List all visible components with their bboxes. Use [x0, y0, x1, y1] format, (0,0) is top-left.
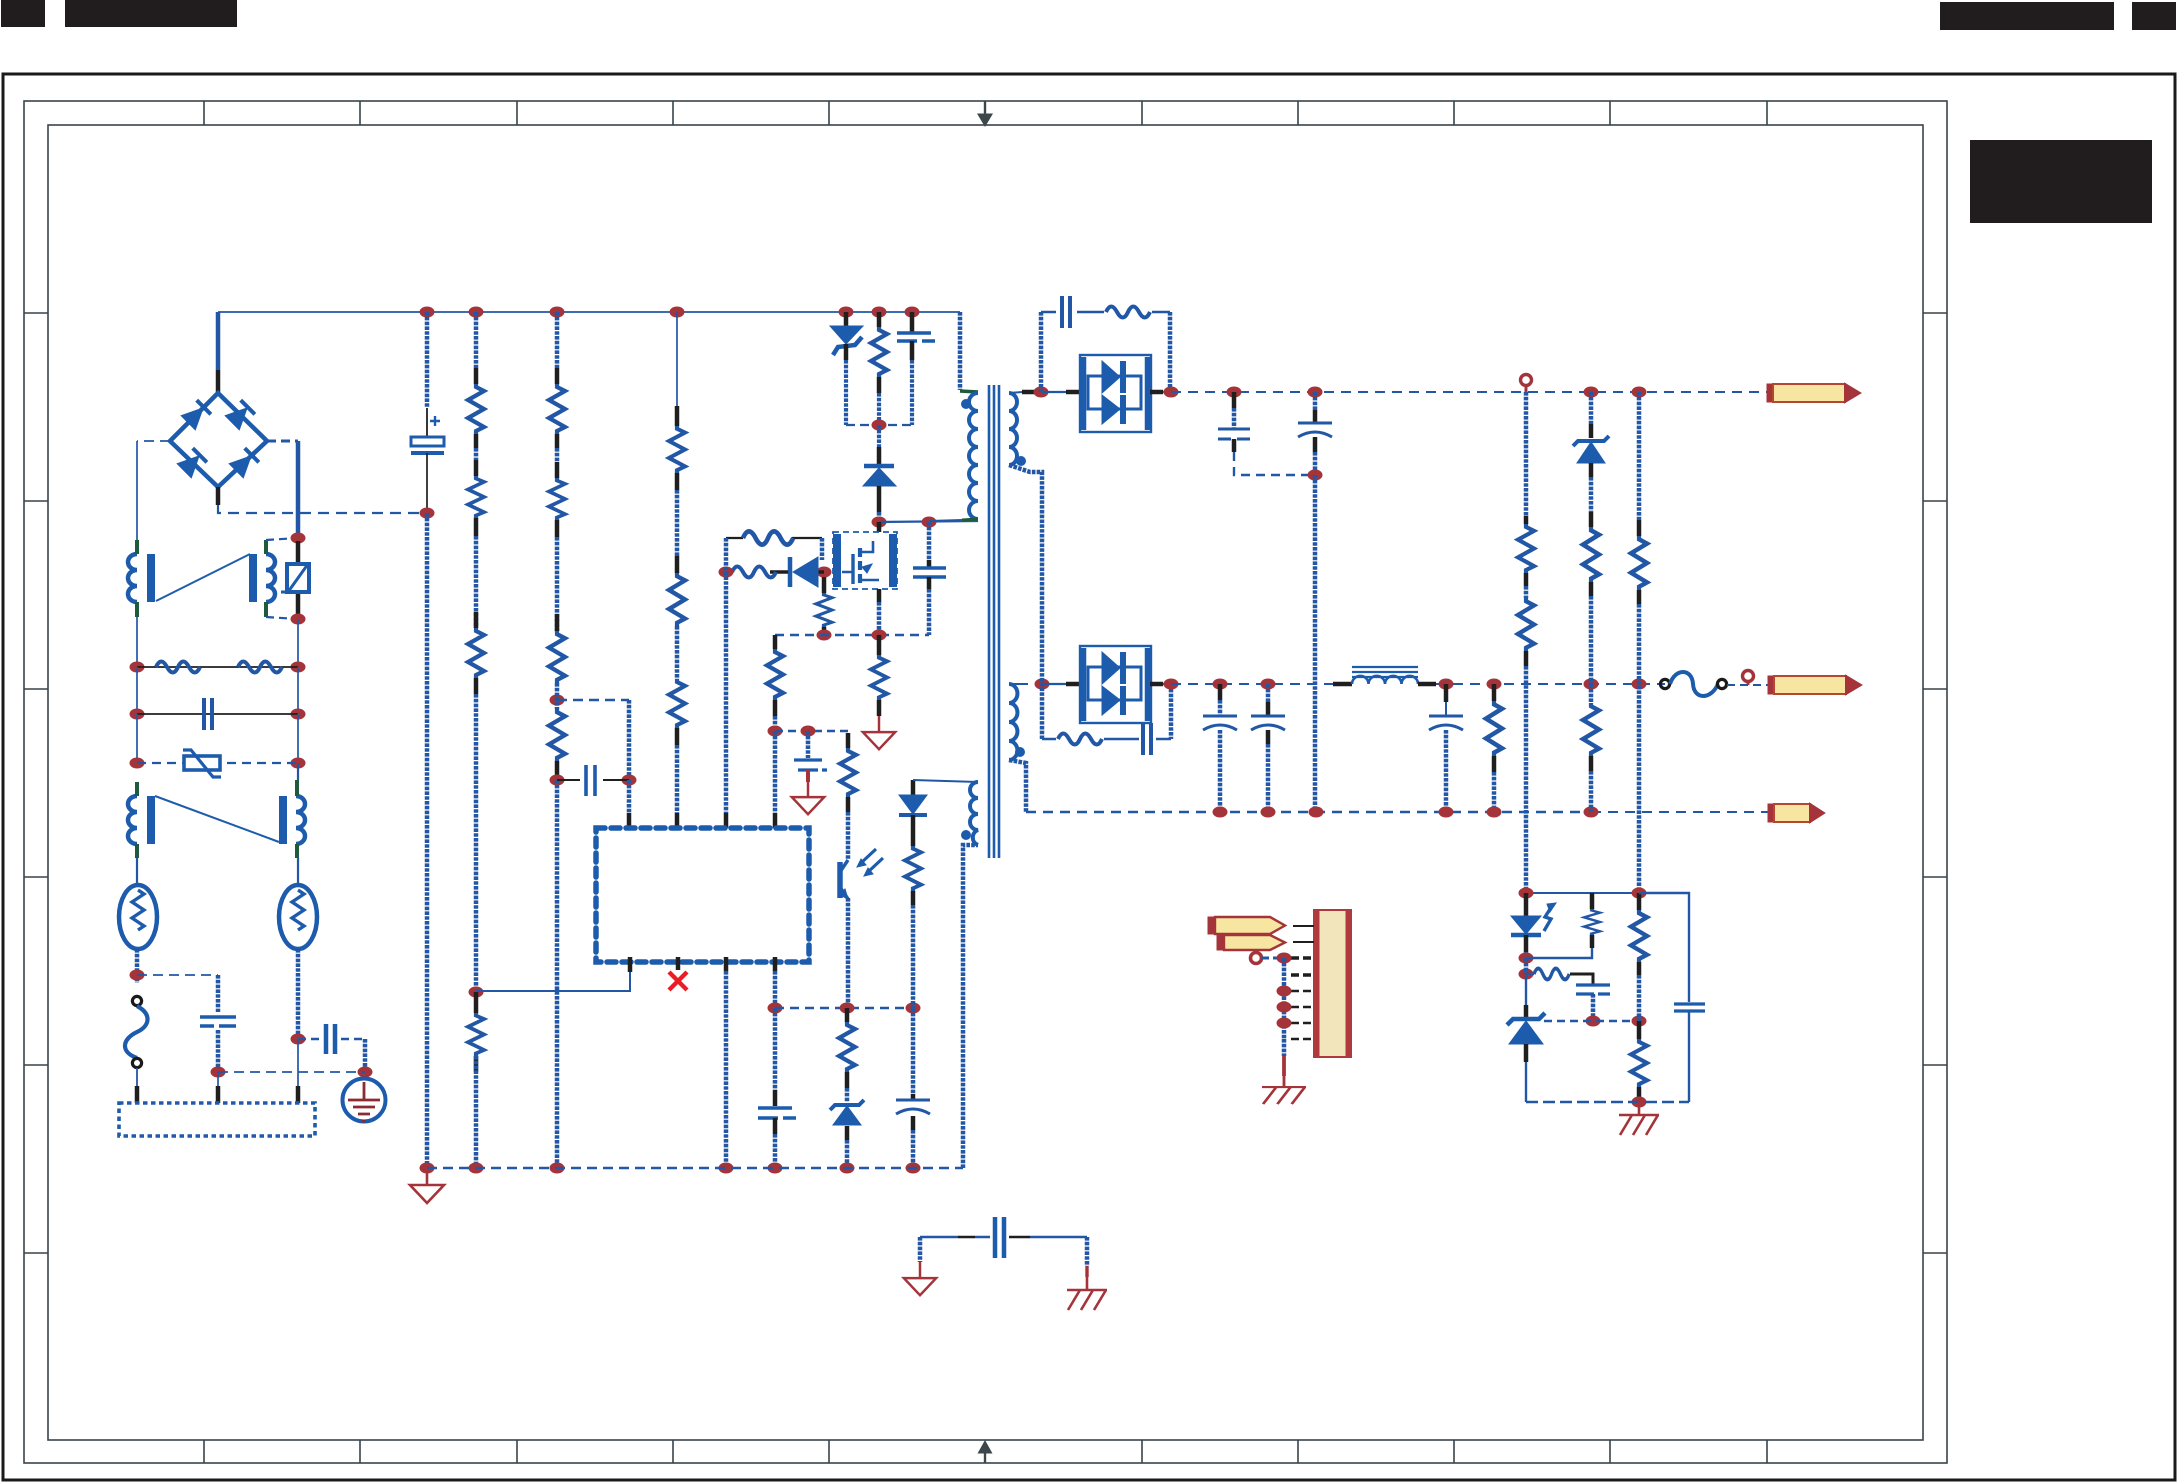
LED parallel resistor R21: [1590, 893, 1595, 909]
resistor R8: [743, 531, 793, 544]
wire: [216, 1030, 221, 1072]
arrow port +24V: [1767, 384, 1860, 402]
node: [1584, 807, 1599, 818]
wire drain row: [879, 521, 978, 522]
node: [906, 1163, 921, 1174]
node: [291, 614, 306, 625]
left border zone ticks: [24, 313, 48, 1253]
ACINPUT: [119, 312, 427, 1136]
node: [1584, 387, 1599, 398]
node: [906, 1003, 921, 1014]
wire bulk cap column: [425, 312, 430, 408]
node: [550, 695, 565, 706]
wire: [137, 667, 298, 714]
capacitor C8: [1313, 392, 1318, 410]
node: [211, 1067, 226, 1078]
fuse F2: [279, 885, 317, 949]
arrow port GND: [1768, 804, 1824, 822]
terminal circle: [132, 1058, 141, 1067]
opto resistor R12: [846, 733, 851, 748]
wire bridge bottom to bulk cap: [216, 487, 221, 505]
fuse link curve: [125, 1006, 148, 1058]
common-mode choke L2: [128, 796, 305, 844]
capacitor C-bulk polarized: [430, 416, 440, 426]
top border zone ticks: [204, 101, 1767, 125]
wire: [296, 441, 301, 538]
black label block top-right 1: [1940, 2, 2114, 30]
wire varistor row: [137, 762, 298, 764]
node: [922, 517, 937, 528]
node: [817, 630, 832, 641]
black label block right margin: [1970, 140, 2152, 223]
node: [1164, 679, 1179, 690]
zener D4: [830, 1100, 864, 1125]
node: [550, 1163, 565, 1174]
wire: [297, 763, 299, 886]
blocking diode D2: [877, 425, 881, 447]
resistor R13: [845, 1008, 850, 1022]
IC bottom pin FB: [628, 957, 633, 972]
wire aux top: [913, 780, 978, 782]
TL431 U3: [1525, 974, 1527, 1005]
node: [768, 726, 783, 737]
wire: [137, 714, 298, 763]
node: [291, 709, 306, 720]
wire secondary lower top out: [1009, 683, 1028, 685]
wire secondary top out: [1009, 392, 1022, 393]
node: [550, 775, 565, 786]
wire ref row: [1544, 1020, 1639, 1022]
node: [1632, 1016, 1647, 1027]
resistor column R5 string: [555, 312, 560, 368]
port mid rail: [1743, 671, 1754, 682]
wire primary ground rail: [427, 1167, 963, 1169]
pin: [297, 1039, 299, 1086]
capacitor CY1: [298, 1038, 365, 1041]
capacitor C11: [1266, 684, 1271, 702]
node: [130, 758, 145, 769]
SECONDARY: [904, 296, 1861, 1310]
wire gate upper branch: [726, 537, 822, 539]
capacitor C9: [1143, 723, 1151, 755]
node: [291, 662, 306, 673]
ground arrow source: [863, 716, 895, 749]
IC bottom pin VREF: [773, 957, 778, 971]
green pins choke L1: [137, 540, 266, 617]
wire row: [218, 1071, 365, 1073]
capacitor C6: [1062, 296, 1070, 328]
snubber resistor R1: [877, 312, 882, 327]
snubber capacitor C1: [910, 312, 915, 332]
pin: [136, 1068, 138, 1086]
capacitor CX1: [204, 698, 212, 730]
node: [1277, 986, 1292, 997]
node: [872, 307, 887, 318]
node: [872, 420, 887, 431]
wire: [135, 949, 140, 983]
transformer secondary winding upper: [1009, 393, 1017, 465]
opto LED block top row: [1526, 892, 1689, 894]
node: [1277, 953, 1292, 964]
resistor column R6 string: [676, 312, 678, 406]
wire cap row: [137, 713, 298, 715]
node: [420, 307, 435, 318]
wire bottom row: [1526, 1101, 1689, 1103]
node: [1632, 888, 1647, 899]
node: [1213, 807, 1228, 818]
transformer primary winding: [958, 312, 963, 390]
node: [1213, 679, 1228, 690]
chassis ground CN: [1262, 1076, 1306, 1104]
capacitor CX2: [200, 1017, 236, 1026]
resistor R17: [1492, 684, 1497, 701]
black label block top-right 2: [2132, 2, 2176, 30]
node: [1261, 679, 1276, 690]
ground arrow left: [904, 1262, 936, 1295]
wire VCC branch: [557, 699, 629, 701]
transformer aux winding: [970, 782, 978, 845]
resistor column R4 string: [474, 312, 479, 368]
CS divider resistor R11: [773, 635, 778, 649]
wire CS row: [775, 730, 848, 732]
node: [840, 1003, 855, 1014]
capacitor C10: [1218, 684, 1223, 700]
wire snubber bottom: [846, 424, 912, 426]
node: [130, 970, 145, 981]
bottom centre marker arrow: [984, 1453, 986, 1463]
wire return rail: [1026, 811, 1591, 813]
capacitor C12: [1444, 684, 1449, 702]
gate diode D3: [817, 567, 832, 578]
resistor R16: [1058, 734, 1102, 745]
wire CS to IC: [773, 731, 778, 813]
wire choke to NTC bottom: [266, 617, 298, 619]
capacitor C4: [773, 1008, 778, 1090]
node: [719, 567, 734, 578]
chassis ground right: [1067, 1277, 1107, 1310]
node: [291, 1034, 306, 1045]
node: [1487, 679, 1502, 690]
node: [469, 987, 484, 998]
ground arrow primary: [410, 1168, 444, 1203]
node: [1308, 470, 1323, 481]
capacitor C5: [911, 1008, 916, 1094]
top centre marker arrow: [984, 101, 986, 114]
resistor R15: [1106, 307, 1150, 318]
node: [291, 758, 306, 769]
chassis ground: [1619, 1102, 1659, 1135]
node: [550, 307, 565, 318]
aux diode D5: [911, 780, 916, 795]
wire: [136, 858, 138, 886]
node: [768, 1003, 783, 1014]
node: [1309, 807, 1324, 818]
MOSFET Q1: [877, 522, 882, 535]
node: [130, 662, 145, 673]
bridge rectifier BR1: [170, 393, 267, 487]
wire: [137, 617, 298, 667]
node: [905, 307, 920, 318]
terminal circle: [132, 996, 141, 1005]
wire bulk return: [425, 513, 430, 1168]
inner drawing border rect: [48, 125, 1923, 1440]
wire: [296, 949, 301, 1039]
earth ground symbol: [343, 1079, 386, 1122]
node: [622, 775, 637, 786]
connector ground bus: [1282, 958, 1287, 1039]
node: [358, 1067, 373, 1078]
varistor RV1: [184, 756, 220, 770]
IC bottom pin GND: [724, 957, 729, 971]
capacitor C13: [1576, 985, 1610, 994]
node: [1584, 679, 1599, 690]
wave link: [1670, 672, 1718, 696]
wire bridge left: [137, 440, 170, 442]
wire aux row: [775, 1007, 913, 1009]
node: [1439, 679, 1454, 690]
node: [719, 1163, 734, 1174]
node: [469, 1163, 484, 1174]
node: [1487, 807, 1502, 818]
node: [1632, 679, 1647, 690]
capacitor C3: [806, 731, 811, 758]
black label block top-left 1: [1, 0, 45, 27]
sense resistor R10: [877, 635, 882, 655]
Y-capacitor C15 bridge grounds: [920, 1236, 990, 1238]
node: [872, 630, 887, 641]
wire +rail out: [1171, 391, 1767, 393]
node: [1308, 387, 1323, 398]
wire secondary lower bottom return: [1009, 760, 1026, 812]
snubber capacitor C2: [927, 522, 932, 560]
capacitor C-vcc: [557, 779, 629, 781]
node: [420, 1163, 435, 1174]
snubber loop lower: [1042, 738, 1171, 740]
node: [1519, 969, 1534, 980]
transformer T1 core: [989, 385, 999, 858]
sense column R18 R19: [1524, 392, 1529, 516]
gate-source resistor R9: [822, 577, 827, 593]
dual diode D6: [1041, 391, 1066, 393]
capacitor C7: [1232, 392, 1237, 408]
node: [1261, 807, 1276, 818]
node: [1632, 1097, 1647, 1108]
node: [1277, 1002, 1292, 1013]
wire aux return: [963, 845, 978, 1168]
arrow port +12V: [1768, 676, 1861, 694]
wire: [363, 1039, 368, 1072]
black label block top-left 2: [65, 0, 237, 27]
wire source row: [775, 634, 929, 636]
common-mode choke L1: [128, 554, 275, 602]
resistor Ra: [156, 662, 200, 673]
PRIMARY: [218, 307, 1026, 1204]
node: [130, 709, 145, 720]
wire to X-cap: [137, 974, 218, 976]
node: [1519, 888, 1534, 899]
node: [1164, 387, 1179, 398]
transformer secondary winding lower: [1009, 684, 1017, 760]
node: [291, 533, 306, 544]
open circle pin3: [1251, 953, 1262, 964]
connector pins: [1293, 926, 1314, 942]
open circle: [1660, 679, 1669, 688]
green pins choke L2: [137, 780, 297, 858]
IC bottom pin NC with X: [676, 957, 681, 970]
port +rail: [1521, 375, 1532, 386]
ground arrow C3: [792, 781, 824, 814]
arrow into pin1: [1208, 917, 1285, 934]
node: [1586, 1016, 1601, 1027]
divider resistors R23 R24: [1637, 893, 1642, 910]
wire gate drive column: [724, 538, 729, 813]
zener column D8: [1589, 392, 1594, 424]
node: [1035, 679, 1050, 690]
right border zone ticks: [1923, 313, 1947, 1253]
pin: [296, 1086, 301, 1103]
snubber TVS branch: [844, 312, 849, 326]
resistor Rb: [238, 662, 282, 673]
node drain: [872, 517, 887, 528]
node: [840, 1163, 855, 1174]
wire discharge row: [137, 666, 298, 668]
node: [839, 307, 854, 318]
TVS diode D1: [830, 326, 863, 344]
optocoupler phototransistor U2B: [837, 862, 843, 898]
aux resistor R14: [905, 846, 921, 891]
node: [1519, 953, 1534, 964]
gate resistor R7: [732, 567, 776, 578]
snubber loop upper: [1039, 312, 1044, 392]
connector CN2: [1314, 910, 1351, 1057]
node: [1632, 387, 1647, 398]
wire bridge right: [267, 440, 298, 443]
wire top rail: [218, 311, 960, 313]
IC U1 PWM controller: [596, 828, 809, 962]
wire IC vcc pin: [627, 780, 632, 813]
opto LED U2A: [1524, 893, 1529, 916]
series resistor R22: [1526, 973, 1534, 975]
node: [420, 508, 435, 519]
node: [1277, 1018, 1292, 1029]
node: [469, 307, 484, 318]
node: [768, 1163, 783, 1174]
AC inlet connector: [119, 1103, 315, 1136]
node: [1439, 807, 1454, 818]
wire top rail feed to bridge: [216, 312, 221, 370]
inductor L3: [1333, 682, 1352, 687]
wire minus column: [1313, 475, 1318, 812]
bottom border zone ticks: [204, 1440, 1767, 1463]
divider column R20: [1637, 392, 1642, 520]
dual diode D7: [1042, 683, 1066, 685]
node: [1227, 387, 1242, 398]
cap branch C14: [1639, 893, 1689, 1002]
fuse F1: [119, 885, 157, 949]
thermistor RT1: [296, 541, 301, 617]
node: [670, 307, 685, 318]
open circle: [1717, 679, 1726, 688]
wire choke to NTC top: [266, 538, 298, 540]
node: [801, 726, 816, 737]
wire upper sec bottom column: [1009, 465, 1042, 739]
node: [1034, 387, 1049, 398]
arrow into pin2: [1217, 935, 1285, 950]
wire mid rail: [1171, 683, 1333, 685]
